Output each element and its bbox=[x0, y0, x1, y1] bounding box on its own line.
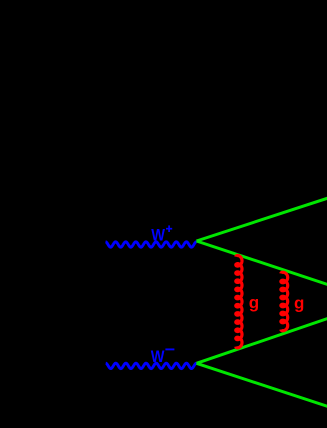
fermion line from W- vertex upper bbox=[197, 318, 327, 364]
svg-text:g: g bbox=[294, 294, 304, 313]
label W+ : plus sign bbox=[166, 225, 172, 232]
boson W+ wavy line bbox=[106, 242, 197, 247]
boson W- wavy line bbox=[106, 363, 197, 368]
fermion line from W+ vertex upper bbox=[197, 197, 327, 241]
gluon g1 coil bbox=[236, 255, 242, 347]
label W- : minus sign bbox=[165, 348, 174, 350]
fermion line from W+ vertex lower bbox=[197, 241, 327, 285]
label W+ : W bbox=[151, 227, 165, 245]
fermion line from W- vertex lower bbox=[197, 363, 327, 407]
label W- : W bbox=[151, 348, 165, 366]
gluon g2 coil bbox=[281, 272, 288, 331]
svg-text:g: g bbox=[249, 293, 259, 312]
svg-text:W: W bbox=[151, 348, 165, 366]
svg-text:W: W bbox=[151, 227, 165, 245]
